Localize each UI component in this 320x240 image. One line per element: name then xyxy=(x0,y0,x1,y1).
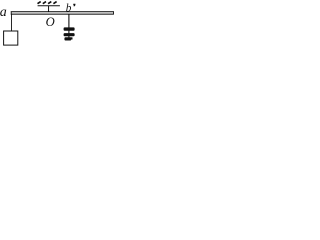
hanging block xyxy=(4,31,18,45)
lever beam top edge xyxy=(11,11,114,13)
hatch mark 4 xyxy=(53,2,56,4)
pivot link wire xyxy=(48,6,50,12)
svg-text:b: b xyxy=(66,3,72,15)
prime tick mark xyxy=(73,4,75,7)
lever beam left end xyxy=(10,11,12,14)
svg-text:a: a xyxy=(0,5,7,20)
right string xyxy=(68,15,70,38)
svg-text:O: O xyxy=(46,15,55,29)
weight plate 3 xyxy=(64,37,72,40)
weight plate 2 xyxy=(64,33,75,36)
left string xyxy=(11,15,13,32)
lever beam right end xyxy=(112,11,114,14)
hatch mark 1 xyxy=(38,2,41,4)
ceiling support line xyxy=(38,5,60,7)
lever beam bottom edge xyxy=(11,13,114,15)
weight plate 1 xyxy=(64,27,75,30)
hatch mark 2 xyxy=(43,2,46,4)
hatch mark 3 xyxy=(48,2,51,4)
